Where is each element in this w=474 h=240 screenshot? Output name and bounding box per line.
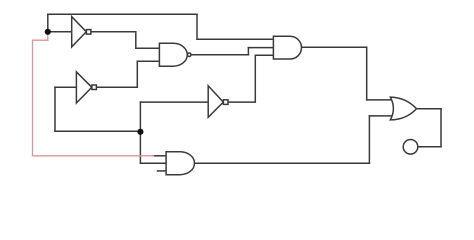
wire vertical node B down branch bbox=[139, 131, 141, 163]
node B junction dot bbox=[137, 129, 143, 135]
wire inverter U2 input horizontal bbox=[55, 86, 76, 88]
wire vertical into node A bbox=[47, 14, 49, 32]
OR U7 body bbox=[390, 97, 416, 120]
wire into output node circle bbox=[418, 146, 441, 148]
wire into AND U6 middle input bbox=[140, 162, 166, 164]
wire AND U4 output bbox=[302, 46, 367, 48]
wire jog up bbox=[247, 48, 249, 55]
wire horizontal into node B bbox=[55, 130, 140, 132]
node A junction dot bbox=[45, 29, 51, 35]
wire AND U6 top input stub bbox=[153, 155, 166, 157]
wire up from inverter U2 output bbox=[136, 61, 138, 87]
wire down to NAND level bbox=[135, 32, 137, 48]
wire node B to inverter U5 input bbox=[140, 101, 208, 103]
wire into NAND U3 bottom input bbox=[137, 60, 159, 62]
wire into AND U4 bottom input bbox=[255, 54, 273, 56]
inverter U1 bubble square bbox=[86, 30, 91, 34]
inverter U5 triangle bbox=[208, 86, 223, 118]
wire OR U7 output bbox=[417, 108, 442, 110]
AND U4 body bbox=[273, 36, 301, 59]
inverter U2 triangle bbox=[76, 72, 91, 103]
wire into AND U4 middle input bbox=[248, 47, 273, 49]
wire into AND U4 top input bbox=[197, 38, 273, 40]
output node circle bbox=[403, 140, 418, 155]
wire top horizontal from node A to corner bbox=[48, 13, 197, 15]
inverter U2 bubble square bbox=[92, 85, 97, 90]
wire inverter U2 output bbox=[96, 86, 137, 88]
red wire from node A down bbox=[33, 35, 154, 156]
wire up from inverter U5 output bbox=[254, 55, 256, 102]
wire down to OR level bbox=[366, 47, 368, 100]
wire inverter U5 output bbox=[228, 101, 255, 103]
wire AND U6 output bbox=[195, 162, 370, 164]
AND U6 body bbox=[166, 152, 194, 175]
NAND U3 body bbox=[159, 43, 187, 66]
NAND U3 bubble bbox=[187, 53, 191, 57]
wire corner down bbox=[196, 14, 198, 39]
wire node A to inverter U1 input bbox=[48, 31, 72, 33]
inverter U5 bubble square bbox=[223, 100, 228, 105]
wire up to OR level bbox=[368, 116, 370, 163]
wire into OR U7 top input bbox=[367, 99, 392, 101]
wire AND U6 bottom input stub open bbox=[158, 170, 167, 172]
inverter U1 triangle bbox=[72, 17, 87, 47]
wire into OR U7 bottom input bbox=[369, 115, 392, 117]
wire vertical left of inverter U2 bbox=[54, 87, 56, 131]
wire inverter U1 output bbox=[91, 31, 136, 33]
wire into NAND U3 top input bbox=[136, 47, 160, 49]
wire NAND U3 output bbox=[191, 54, 249, 56]
wire down to output node bbox=[440, 109, 442, 147]
wire vertical node B up branch bbox=[139, 102, 141, 131]
